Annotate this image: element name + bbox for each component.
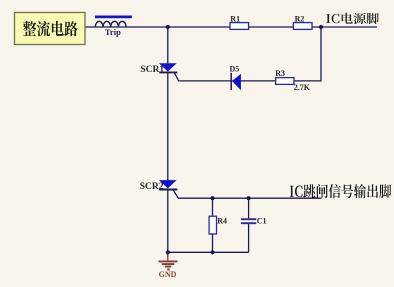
- svg-text:R2: R2: [295, 15, 305, 24]
- svg-text:2.7K: 2.7K: [294, 83, 311, 92]
- svg-text:Trip: Trip: [105, 27, 121, 37]
- svg-text:C1: C1: [257, 216, 267, 225]
- svg-text:R4: R4: [217, 216, 227, 225]
- svg-text:SCR1: SCR1: [140, 65, 164, 75]
- svg-text:GND: GND: [159, 270, 177, 279]
- svg-text:D5: D5: [230, 65, 240, 74]
- svg-text:SCR2: SCR2: [140, 182, 164, 192]
- svg-text:R3: R3: [275, 69, 285, 78]
- svg-text:R1: R1: [230, 15, 240, 24]
